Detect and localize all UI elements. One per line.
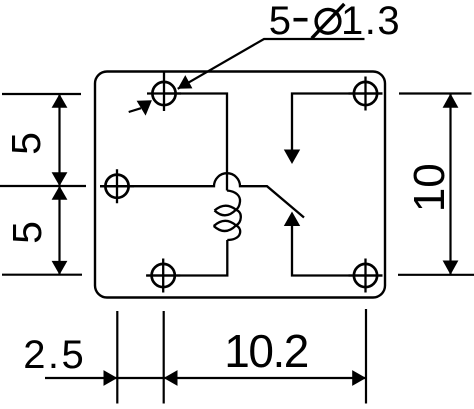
svg-text:2.5: 2.5	[23, 333, 86, 377]
svg-text:5: 5	[4, 221, 50, 244]
svg-text:10.2: 10.2	[224, 325, 308, 377]
svg-text:5: 5	[269, 0, 291, 43]
svg-text:1.3: 1.3	[341, 0, 401, 43]
svg-text:10: 10	[405, 163, 454, 212]
svg-text:5: 5	[3, 132, 49, 155]
